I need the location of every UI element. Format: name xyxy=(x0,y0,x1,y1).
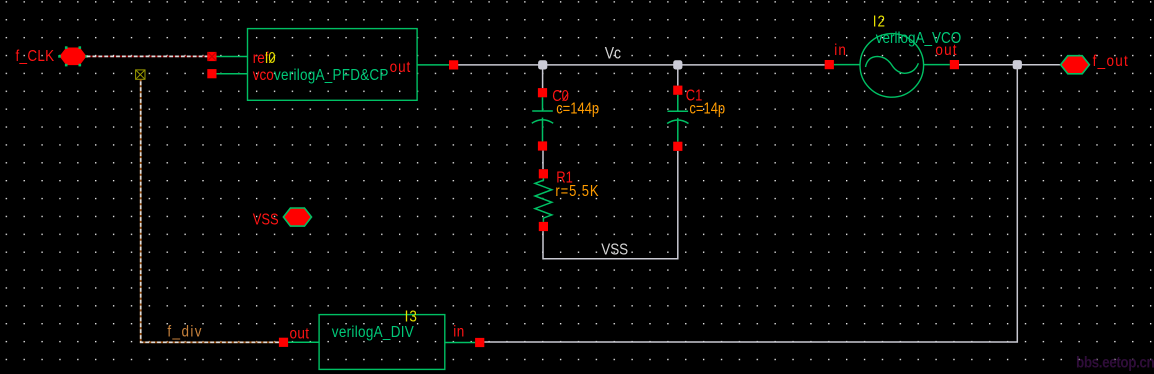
pin f_CLK (input pin hexagon, selected: green vertex handles) xyxy=(58,46,88,66)
svg-text:f_div: f_div xyxy=(167,324,202,341)
top stem xyxy=(677,95,679,112)
svg-text:I2: I2 xyxy=(873,13,886,30)
pin square bottom xyxy=(673,142,682,151)
pin stub ref xyxy=(217,56,248,58)
stub out xyxy=(288,341,319,343)
svg-text:out: out xyxy=(390,59,411,76)
wire net f_div (dashed brown/white) xyxy=(141,79,279,342)
svg-text:VSS: VSS xyxy=(253,212,279,229)
pin out square xyxy=(449,60,458,69)
svg-text:verilogA_DIV: verilogA_DIV xyxy=(332,324,414,341)
pin VSS (hexagon) xyxy=(283,208,311,226)
svg-text:out: out xyxy=(290,326,310,343)
stub in xyxy=(445,342,475,344)
pin out square xyxy=(950,60,959,69)
pin square top xyxy=(673,86,682,95)
wire Vc to C1 (gray drop) xyxy=(677,65,679,86)
wire end marker (yellow X box, dangling f_div net) xyxy=(136,70,145,79)
svg-text:I0: I0 xyxy=(265,50,276,67)
wire feedback (gray, right drop and bottom run) xyxy=(484,65,1017,342)
instance name I0 (slashed zero) xyxy=(265,50,276,67)
svg-text:c=14p: c=14p xyxy=(689,101,725,118)
svg-text:in: in xyxy=(453,324,465,341)
svg-text:verilogA_VCO: verilogA_VCO xyxy=(876,30,961,47)
bottom stem xyxy=(542,118,544,142)
stub in xyxy=(834,64,860,66)
stub out xyxy=(924,64,950,66)
wire junction at C0 branch xyxy=(538,60,547,69)
pin stub out xyxy=(417,64,449,66)
top plate xyxy=(532,110,553,112)
bottom plate (arc) xyxy=(667,120,688,124)
zigzag body xyxy=(535,178,552,222)
capacitor C0 xyxy=(532,88,599,151)
wire junction at C1 branch xyxy=(673,60,682,69)
wire Vc to C0 (gray drop) xyxy=(542,65,544,88)
pin f_out (hexagon) xyxy=(1061,56,1090,74)
resistor R1 xyxy=(535,169,599,231)
pin vco square xyxy=(207,69,216,78)
bottom stem xyxy=(677,118,679,142)
wire net Vc (gray) xyxy=(458,64,825,66)
label C0 (slashed zero) xyxy=(552,88,569,105)
svg-text:VSS: VSS xyxy=(601,242,628,259)
svg-text:bbs.eetop.cn: bbs.eetop.cn xyxy=(1076,354,1154,371)
wire net f_CLK (dashed red/white) xyxy=(87,55,208,57)
instance I3 verilogA_DIV xyxy=(279,308,484,369)
top stem xyxy=(542,97,544,111)
pin in square xyxy=(825,60,834,69)
body rectangle xyxy=(319,315,445,370)
svg-text:vco: vco xyxy=(253,67,274,84)
svg-text:f_out: f_out xyxy=(1093,53,1130,70)
svg-text:verilogA_PFD&CP: verilogA_PFD&CP xyxy=(274,67,389,84)
body circle xyxy=(860,34,924,98)
instance I2 verilogA_VCO xyxy=(825,13,962,97)
bottom plate (arc) xyxy=(532,120,553,124)
capacitor C1 xyxy=(667,86,725,151)
pin square top xyxy=(539,169,548,178)
pin stub vco xyxy=(217,73,248,75)
svg-text:c=144p: c=144p xyxy=(556,101,599,118)
top plate xyxy=(668,110,689,112)
body rectangle xyxy=(248,29,418,101)
instance I0 verilogA_PFD&CP xyxy=(207,29,458,101)
svg-text:r=5.5K: r=5.5K xyxy=(555,183,599,200)
pin in square xyxy=(475,338,484,347)
wire net VSS (R1 bottom to C1 bottom, gray) xyxy=(543,151,678,259)
svg-text:Vc: Vc xyxy=(605,45,622,63)
pin square bottom xyxy=(538,141,547,150)
wire end X marker on ref pin xyxy=(208,52,216,60)
svg-text:in: in xyxy=(834,42,847,59)
pin ref square xyxy=(207,52,216,61)
wire C0 to R1 (gray) xyxy=(542,151,544,170)
wire junction at feedback xyxy=(1013,60,1022,69)
pin square bottom xyxy=(539,222,548,231)
svg-text:f_CLK: f_CLK xyxy=(16,48,55,65)
pin out square xyxy=(279,338,288,347)
pin square top xyxy=(538,88,547,97)
sine wave xyxy=(866,56,919,73)
wire VCO out to f_out (gray) xyxy=(959,64,1061,66)
